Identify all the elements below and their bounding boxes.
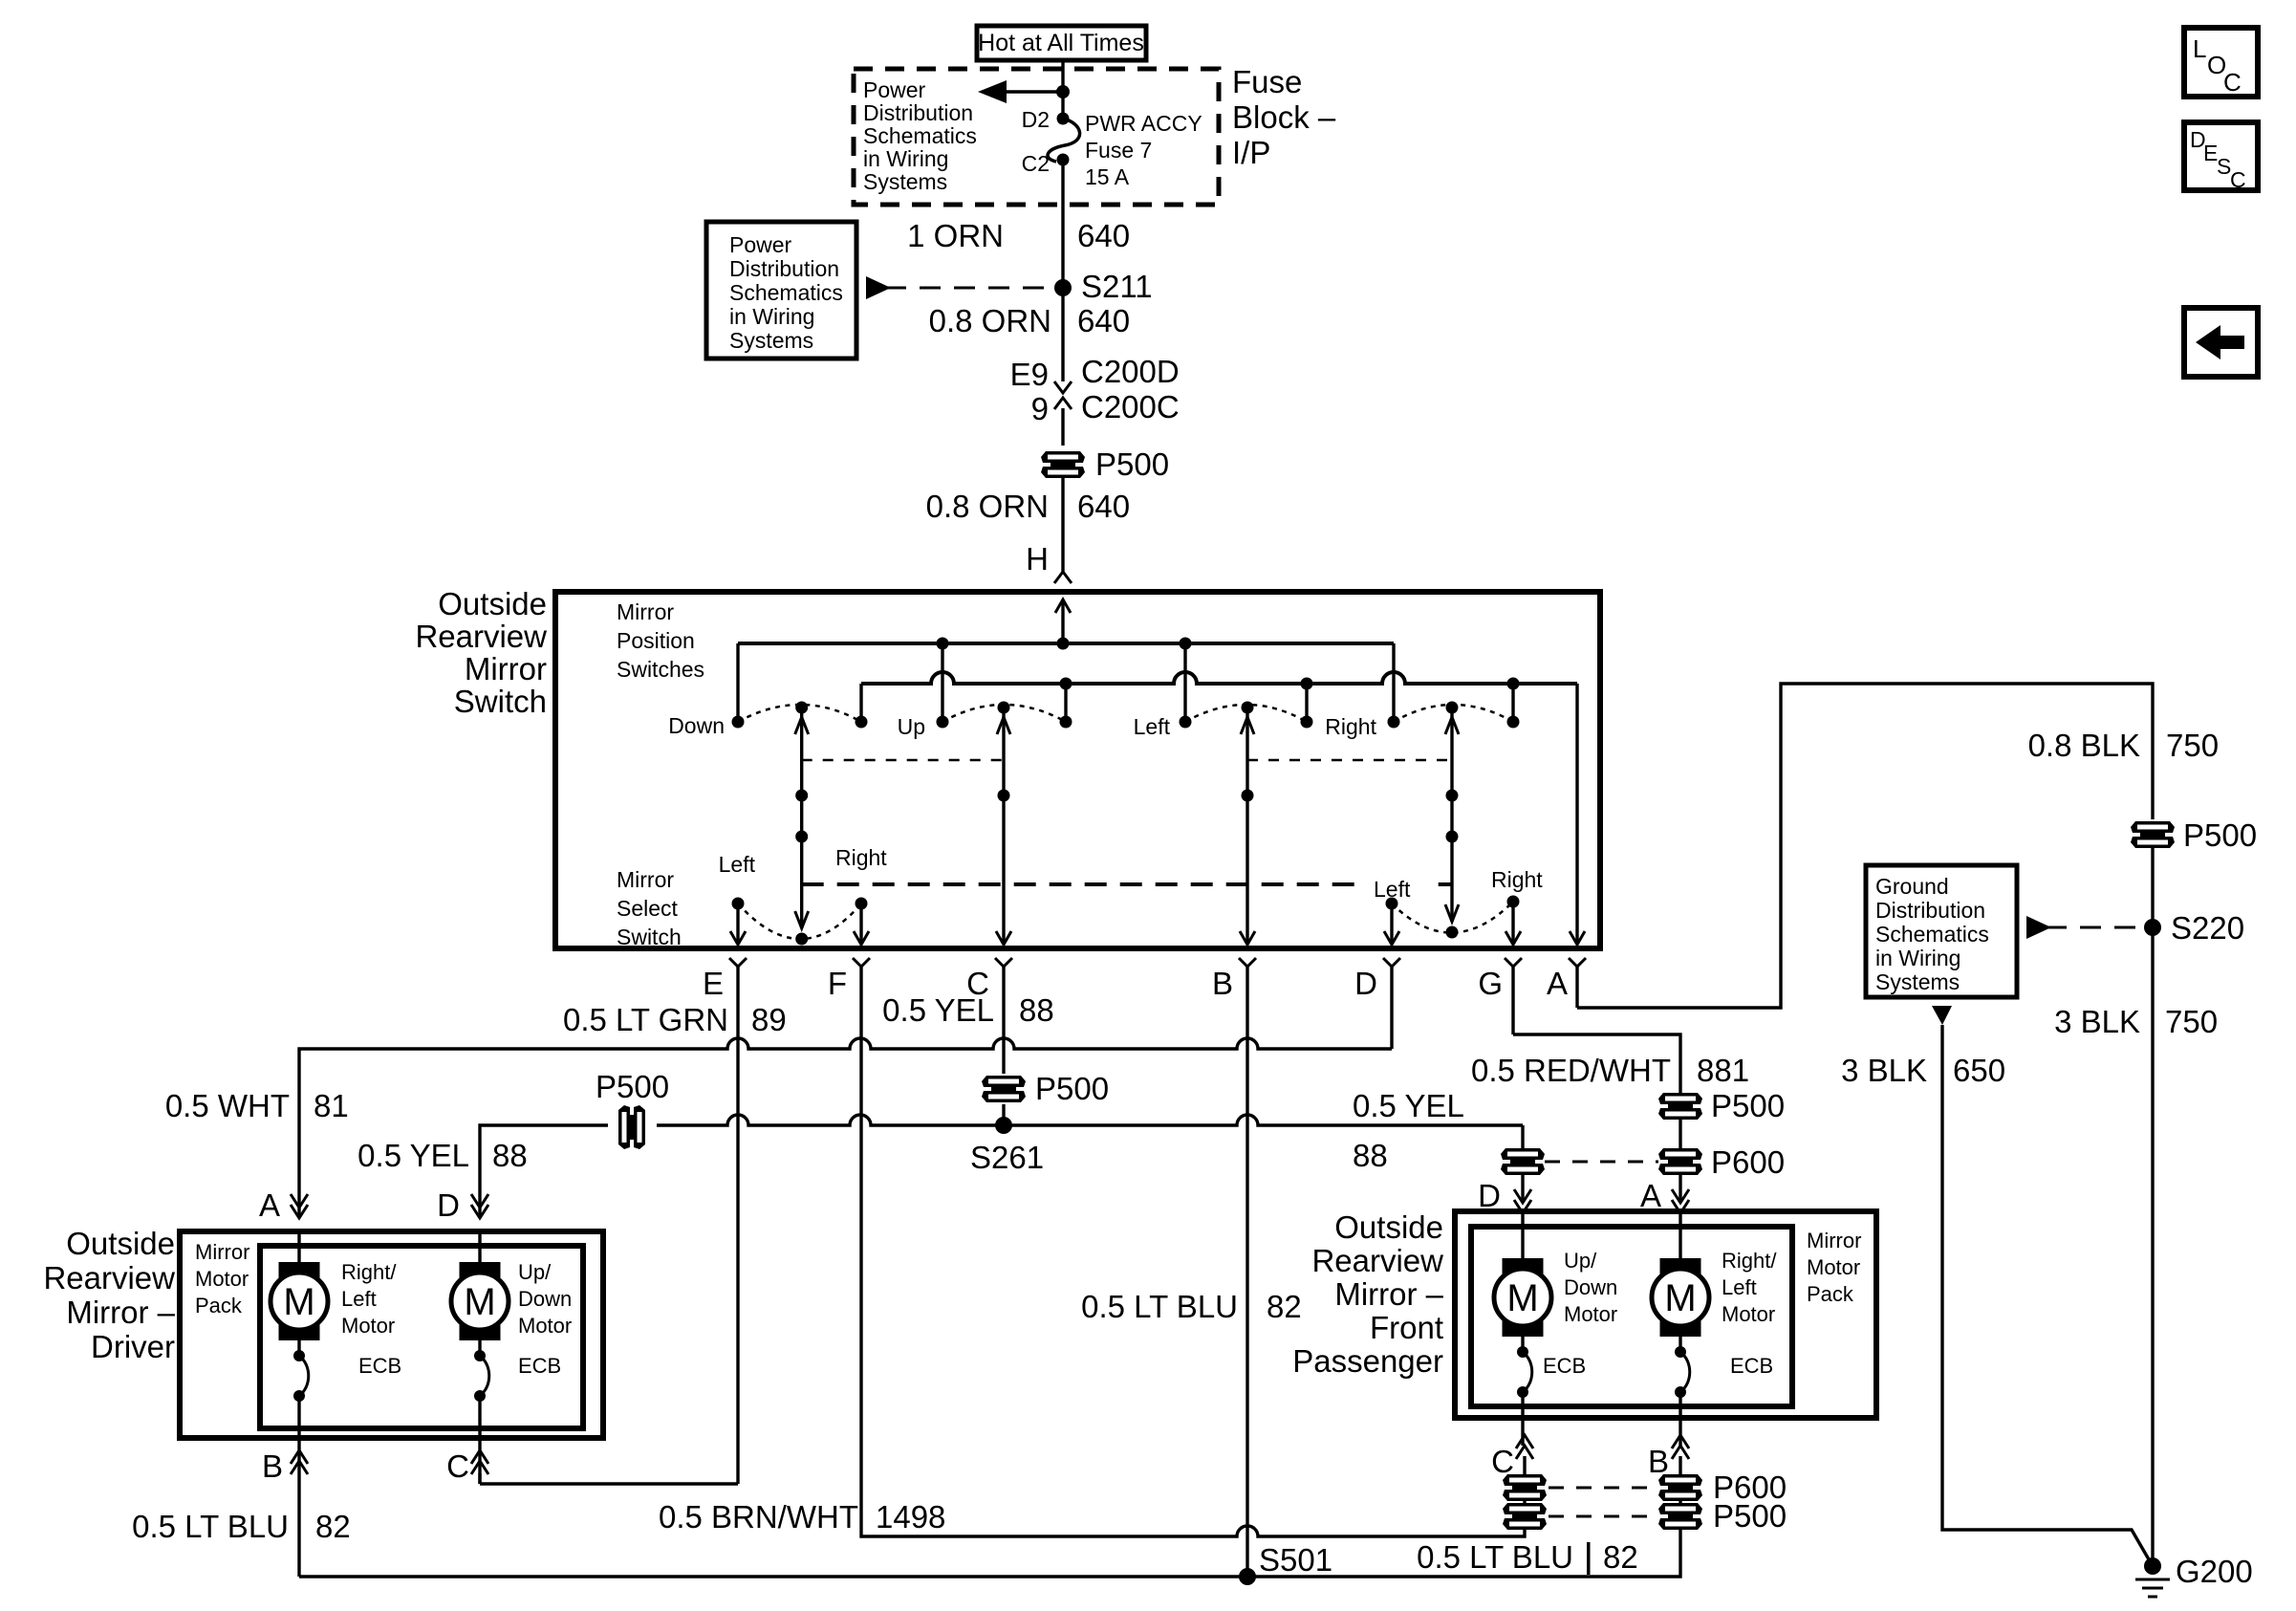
svg-text:C200C: C200C xyxy=(1081,389,1180,425)
svg-text:B: B xyxy=(1212,966,1233,1001)
svg-text:in Wiring: in Wiring xyxy=(729,304,814,329)
svg-text:0.8 ORN: 0.8 ORN xyxy=(926,489,1049,524)
wiper arrow Right to select xyxy=(1450,713,1453,922)
wire 3 BLK 650 from ground distribution xyxy=(1932,1006,1952,1025)
wire stub Left contact to bus upper xyxy=(1183,643,1186,722)
select switch arc passenger xyxy=(1392,902,1513,933)
svg-text:F: F xyxy=(828,966,847,1001)
passenger pin C wire xyxy=(1521,1418,1524,1446)
svg-text:640: 640 xyxy=(1077,489,1130,524)
passenger pin B wire xyxy=(1679,1418,1681,1446)
select switch arc driver xyxy=(738,903,861,939)
pin G xyxy=(1511,902,1514,942)
note power distribution schematics box xyxy=(706,222,856,359)
svg-text:0.5 YEL: 0.5 YEL xyxy=(1353,1088,1464,1123)
driver right-left motor M1 xyxy=(297,1231,300,1262)
svg-text:Switch: Switch xyxy=(454,684,547,719)
svg-text:C2: C2 xyxy=(1022,151,1050,176)
svg-text:750: 750 xyxy=(2166,728,2219,763)
svg-text:ECB: ECB xyxy=(358,1354,401,1378)
DESC index box xyxy=(2184,122,2258,190)
svg-text:Rearview: Rearview xyxy=(1311,1243,1443,1278)
passenger motor M4 ECB switch xyxy=(1679,1337,1681,1352)
svg-text:Schematics: Schematics xyxy=(1875,922,1989,947)
wire 0.8 BLK 750 pin A to ground xyxy=(1577,684,2153,1008)
svg-text:M: M xyxy=(464,1281,495,1323)
fuse PWR ACCY Fuse 7 15 A xyxy=(1057,113,1070,125)
svg-text:I/P: I/P xyxy=(1232,135,1270,170)
svg-text:Motor: Motor xyxy=(1807,1255,1860,1279)
connector P500 in-line horizontal xyxy=(618,1105,645,1149)
svg-text:88: 88 xyxy=(1353,1138,1388,1173)
fuse block dashed box xyxy=(854,69,1219,205)
svg-text:PWR ACCY: PWR ACCY xyxy=(1085,111,1202,136)
wire 0.5 BRN WHT 1498 pin F xyxy=(861,967,1525,1536)
svg-text:Mirror: Mirror xyxy=(465,651,547,686)
driver pin D connector xyxy=(471,1194,488,1208)
switch arc Up xyxy=(942,705,1066,722)
connector P600 passenger C xyxy=(1503,1474,1547,1501)
svg-text:Ground: Ground xyxy=(1875,874,1949,899)
svg-text:Down: Down xyxy=(668,713,725,738)
svg-text:A: A xyxy=(259,1187,280,1223)
svg-text:9: 9 xyxy=(1031,391,1049,426)
driver mirror inner box xyxy=(260,1246,583,1428)
svg-text:Up: Up xyxy=(898,714,925,739)
svg-text:Pack: Pack xyxy=(195,1294,243,1317)
svg-text:Select: Select xyxy=(617,896,679,921)
svg-text:0.8 BLK: 0.8 BLK xyxy=(2028,728,2140,763)
svg-text:Outside: Outside xyxy=(438,586,547,621)
svg-text:E9: E9 xyxy=(1010,357,1049,392)
splice S220 xyxy=(2144,919,2161,936)
passenger pin B wire 0.5 LT BLU 82 xyxy=(1679,1456,1681,1474)
svg-text:P500: P500 xyxy=(596,1069,669,1104)
passenger pin C connector xyxy=(1516,1446,1533,1459)
switch arc Left xyxy=(1185,705,1307,722)
svg-text:881: 881 xyxy=(1697,1053,1749,1088)
svg-text:88: 88 xyxy=(492,1138,528,1173)
svg-text:S220: S220 xyxy=(2171,910,2244,946)
driver mirror outer box xyxy=(180,1231,603,1438)
wire fuse output xyxy=(1061,160,1064,283)
connector P500 BLK xyxy=(2131,821,2175,848)
svg-text:0.8 ORN: 0.8 ORN xyxy=(929,303,1051,338)
svg-text:B: B xyxy=(262,1448,283,1484)
svg-text:Up/: Up/ xyxy=(1564,1249,1597,1273)
driver motor M1 ECB switch xyxy=(297,1340,300,1356)
svg-text:Distribution: Distribution xyxy=(863,100,973,125)
svg-text:L: L xyxy=(2193,34,2206,63)
svg-text:Down: Down xyxy=(518,1287,572,1311)
pin C xyxy=(996,931,1011,945)
svg-text:Outside: Outside xyxy=(66,1226,175,1261)
passenger right-left motor M4 xyxy=(1679,1211,1681,1258)
svg-text:Mirror: Mirror xyxy=(617,599,674,624)
wire stub arc contact to bus lower xyxy=(1064,684,1067,722)
svg-text:A: A xyxy=(1640,1178,1661,1213)
passenger mirror outer box xyxy=(1455,1211,1876,1418)
svg-text:M: M xyxy=(283,1281,314,1323)
svg-text:640: 640 xyxy=(1077,303,1130,338)
wire bus upper right drop to Right contact xyxy=(1392,643,1395,722)
svg-text:Up/: Up/ xyxy=(518,1260,552,1284)
svg-text:Pack: Pack xyxy=(1807,1282,1854,1306)
wire 0.5 LT GRN 89 pin E xyxy=(736,967,739,1484)
svg-text:ECB: ECB xyxy=(1543,1354,1586,1378)
connector P600 passenger D xyxy=(1501,1148,1545,1175)
svg-text:M: M xyxy=(1506,1277,1538,1319)
splice S211 xyxy=(1054,279,1072,296)
svg-text:0.5 LT BLU: 0.5 LT BLU xyxy=(132,1509,289,1544)
svg-text:Schematics: Schematics xyxy=(729,280,843,305)
wire pin D to cross wire xyxy=(1390,967,1393,1049)
driver pin C xyxy=(478,1438,481,1484)
passenger mirror inner box xyxy=(1471,1227,1792,1406)
connector P500 RED WHT xyxy=(1658,1093,1702,1120)
wire bus lower left drop xyxy=(859,684,862,722)
switch box Outside Rearview Mirror Switch xyxy=(555,592,1600,948)
svg-text:M: M xyxy=(1664,1277,1696,1319)
svg-text:0.5 BRN/WHT: 0.5 BRN/WHT xyxy=(659,1499,858,1535)
svg-text:D: D xyxy=(1354,966,1377,1001)
connector P600 RED WHT xyxy=(1658,1148,1702,1175)
svg-text:Passenger: Passenger xyxy=(1292,1343,1443,1379)
svg-text:B: B xyxy=(1648,1444,1669,1479)
svg-text:Mirror: Mirror xyxy=(195,1240,249,1264)
svg-text:Rearview: Rearview xyxy=(43,1260,175,1295)
svg-text:D: D xyxy=(1478,1178,1501,1213)
LOC index box xyxy=(2184,28,2258,97)
wire pin G xyxy=(1511,967,1514,1034)
driver pin B xyxy=(297,1438,300,1577)
mechanical link dashed upper xyxy=(802,759,1004,762)
bus wire lower with hops xyxy=(861,672,1577,684)
svg-text:Power: Power xyxy=(729,232,792,257)
svg-text:C: C xyxy=(2230,167,2246,192)
svg-text:0.5 WHT: 0.5 WHT xyxy=(165,1088,290,1123)
wire between connectors xyxy=(1061,408,1064,446)
dashed link P500 pair lower xyxy=(1549,1515,1657,1518)
connector P500 ORN xyxy=(1041,451,1085,478)
svg-text:89: 89 xyxy=(751,1002,787,1037)
driver motor M2 ECB switch xyxy=(478,1340,481,1356)
driver up-down motor M2 xyxy=(478,1231,481,1262)
svg-text:P500: P500 xyxy=(1035,1071,1109,1106)
select switch contact Left passenger xyxy=(1367,874,1438,901)
svg-text:Distribution: Distribution xyxy=(1875,898,1985,923)
svg-text:P600: P600 xyxy=(1711,1144,1785,1180)
arrow to power distribution schematics xyxy=(985,90,1063,93)
svg-text:H: H xyxy=(1026,541,1049,577)
svg-text:Left: Left xyxy=(341,1287,377,1311)
wire 0.5 YEL 88 pin C xyxy=(1002,967,1005,1074)
svg-text:Down: Down xyxy=(1564,1275,1617,1299)
passenger pin A connector xyxy=(1672,1189,1689,1203)
svg-text:in Wiring: in Wiring xyxy=(863,146,948,171)
svg-text:Motor: Motor xyxy=(1564,1302,1617,1326)
svg-text:Right/: Right/ xyxy=(1722,1249,1777,1273)
wire to passenger pin D xyxy=(1521,1125,1524,1150)
svg-text:Fuse: Fuse xyxy=(1232,64,1302,99)
svg-text:Systems: Systems xyxy=(1875,969,1960,994)
svg-text:750: 750 xyxy=(2165,1004,2218,1039)
svg-text:Fuse 7: Fuse 7 xyxy=(1085,138,1152,163)
svg-text:Mirror –: Mirror – xyxy=(66,1295,175,1330)
svg-text:C: C xyxy=(446,1448,469,1484)
wire stub right arc contact to bus lower xyxy=(1511,684,1514,722)
bus wire upper xyxy=(738,642,1394,645)
switch arc Right xyxy=(1394,705,1513,722)
wire 0.5 RED WHT 881 pin G to passenger A xyxy=(1513,1034,1680,1093)
svg-text:Block –: Block – xyxy=(1232,99,1336,135)
svg-text:Left: Left xyxy=(1134,714,1171,739)
driver pin A connector xyxy=(291,1194,308,1208)
svg-text:Motor: Motor xyxy=(1722,1302,1775,1326)
svg-text:0.5 YEL: 0.5 YEL xyxy=(882,992,994,1028)
svg-text:0.5 LT BLU: 0.5 LT BLU xyxy=(1081,1289,1238,1324)
connector P500 passenger C xyxy=(1503,1503,1547,1530)
svg-text:D2: D2 xyxy=(1022,107,1050,132)
svg-text:P500: P500 xyxy=(1095,446,1169,482)
connector P500 YEL xyxy=(982,1076,1026,1102)
svg-text:Mirror: Mirror xyxy=(617,867,674,892)
svg-text:Left: Left xyxy=(719,852,756,877)
svg-text:Outside: Outside xyxy=(1334,1209,1443,1245)
wire bus lower right drop to pin A xyxy=(1575,684,1578,942)
svg-text:Motor: Motor xyxy=(195,1267,249,1291)
svg-text:0.5 YEL: 0.5 YEL xyxy=(357,1138,469,1173)
svg-text:81: 81 xyxy=(314,1088,349,1123)
wiper arrow Down-Up to select xyxy=(800,713,803,928)
svg-text:1498: 1498 xyxy=(876,1499,945,1535)
svg-text:Rearview: Rearview xyxy=(415,619,547,654)
wire pin B 0.5 LT BLU 82 xyxy=(1245,967,1248,1577)
svg-text:D: D xyxy=(437,1187,460,1223)
svg-text:S501: S501 xyxy=(1259,1542,1332,1578)
svg-text:S261: S261 xyxy=(970,1140,1044,1175)
wire pin H to bus xyxy=(1055,599,1071,613)
svg-text:Power: Power xyxy=(863,77,926,102)
passenger up-down motor M3 xyxy=(1521,1211,1524,1258)
svg-text:Systems: Systems xyxy=(729,328,813,353)
svg-text:Motor: Motor xyxy=(518,1314,572,1338)
svg-text:1 ORN: 1 ORN xyxy=(907,218,1004,253)
svg-text:S211: S211 xyxy=(1081,269,1153,304)
splice S501 xyxy=(1239,1568,1256,1585)
pin E xyxy=(736,903,739,942)
pin B xyxy=(1240,931,1255,945)
dashed link P600 pair lower xyxy=(1549,1487,1657,1490)
svg-text:G: G xyxy=(1478,966,1503,1001)
wire bus upper left drop to Down contact xyxy=(736,643,739,722)
svg-text:3 BLK: 3 BLK xyxy=(1841,1053,1927,1088)
pin A xyxy=(1570,931,1585,945)
svg-text:C200D: C200D xyxy=(1081,354,1180,389)
svg-text:Hot at All Times: Hot at All Times xyxy=(978,30,1144,56)
svg-text:Right: Right xyxy=(1325,714,1376,739)
mechanical link dashed lower xyxy=(802,882,1452,886)
svg-text:0.5 LT GRN: 0.5 LT GRN xyxy=(563,1002,728,1037)
ground G200 xyxy=(2144,1557,2161,1575)
svg-text:P500: P500 xyxy=(1711,1088,1785,1123)
svg-text:E: E xyxy=(703,966,724,1001)
wire 0.8 ORN 640 upper xyxy=(1061,288,1064,381)
svg-text:P500: P500 xyxy=(1713,1498,1787,1534)
svg-text:650: 650 xyxy=(1953,1053,2005,1088)
label Hot at All Times xyxy=(977,26,1146,60)
svg-text:Left: Left xyxy=(1722,1275,1757,1299)
svg-text:640: 640 xyxy=(1077,218,1130,253)
svg-text:C: C xyxy=(2223,68,2242,97)
svg-text:Distribution: Distribution xyxy=(729,256,839,281)
svg-text:ECB: ECB xyxy=(518,1354,561,1378)
svg-text:82: 82 xyxy=(1267,1289,1302,1324)
wiper arrow Up to pin C xyxy=(1002,713,1005,942)
wire 0.5 YEL 88 to driver pin D xyxy=(480,1125,608,1215)
svg-text:0.5 LT BLU: 0.5 LT BLU xyxy=(1417,1539,1573,1575)
svg-text:82: 82 xyxy=(315,1509,351,1544)
wire pin A xyxy=(1575,967,1578,1008)
svg-text:Mirror –: Mirror – xyxy=(1334,1276,1443,1312)
pin D xyxy=(1390,903,1393,942)
svg-text:ECB: ECB xyxy=(1730,1354,1773,1378)
svg-text:Right: Right xyxy=(1491,867,1543,892)
svg-text:Systems: Systems xyxy=(863,169,947,194)
wire battery feed from Hot at All Times xyxy=(1061,60,1064,119)
svg-text:in Wiring: in Wiring xyxy=(1875,946,1960,970)
svg-text:3 BLK: 3 BLK xyxy=(2054,1004,2140,1039)
wire stub arc contact right to bus lower xyxy=(1305,684,1308,722)
switch arc Down xyxy=(738,705,861,722)
svg-text:Mirror: Mirror xyxy=(1807,1229,1861,1252)
dashed link P600 pair xyxy=(1545,1161,1658,1164)
svg-text:Motor: Motor xyxy=(341,1314,395,1338)
svg-text:88: 88 xyxy=(1019,992,1054,1028)
svg-text:Switches: Switches xyxy=(617,657,704,682)
wire stub Up contact to bus upper xyxy=(941,643,943,722)
wire 0.5 WHT 81 to driver pin A xyxy=(299,1038,1392,1215)
svg-text:G200: G200 xyxy=(2176,1554,2253,1589)
note ground distribution schematics box xyxy=(1866,865,2017,997)
svg-text:Front: Front xyxy=(1370,1310,1443,1345)
wire 0.8 ORN 640 lower xyxy=(1061,478,1064,572)
svg-text:Schematics: Schematics xyxy=(863,123,977,148)
svg-text:0.5 RED/WHT: 0.5 RED/WHT xyxy=(1471,1053,1671,1088)
passenger motor M3 ECB switch xyxy=(1521,1337,1524,1352)
splice S261 xyxy=(995,1117,1012,1134)
svg-text:Driver: Driver xyxy=(91,1329,175,1364)
svg-text:Right/: Right/ xyxy=(341,1260,397,1284)
back arrow box xyxy=(2184,308,2258,377)
svg-text:82: 82 xyxy=(1603,1539,1638,1575)
svg-text:A: A xyxy=(1547,966,1568,1001)
passenger pin D connector xyxy=(1514,1189,1531,1203)
svg-text:Position: Position xyxy=(617,628,695,653)
pin F xyxy=(859,903,862,942)
svg-text:P500: P500 xyxy=(2183,817,2257,853)
wiper arrow Left to pin B xyxy=(1245,713,1248,942)
wire pin E to driver pin C xyxy=(480,1482,738,1485)
passenger pin B connector xyxy=(1672,1446,1689,1459)
svg-text:15 A: 15 A xyxy=(1085,164,1130,189)
svg-text:C: C xyxy=(1491,1444,1514,1479)
svg-text:Switch: Switch xyxy=(617,925,682,949)
svg-text:Right: Right xyxy=(835,845,887,870)
